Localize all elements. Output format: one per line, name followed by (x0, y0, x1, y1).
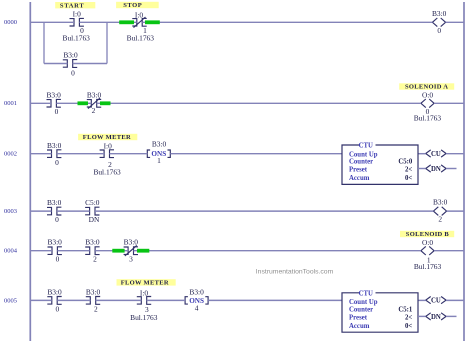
svg-text:DN: DN (431, 314, 441, 321)
svg-text:I:0: I:0 (140, 288, 149, 297)
svg-text:B3:0: B3:0 (124, 238, 139, 247)
svg-text:Bul.1763: Bul.1763 (127, 33, 155, 42)
svg-text:O:0: O:0 (422, 90, 433, 99)
svg-text:0000: 0000 (4, 19, 17, 26)
svg-text:B3:0: B3:0 (63, 51, 78, 60)
svg-text:B3:0: B3:0 (86, 287, 101, 296)
svg-text:O:0: O:0 (422, 238, 433, 247)
svg-text:Counter: Counter (349, 159, 373, 166)
svg-text:START: START (60, 2, 84, 9)
svg-text:1: 1 (157, 156, 161, 165)
svg-text:Preset: Preset (349, 167, 368, 174)
svg-text:FLOW METER: FLOW METER (121, 280, 169, 287)
svg-text:2<: 2< (405, 167, 412, 174)
svg-text:0: 0 (71, 69, 75, 78)
svg-text:B3:0: B3:0 (85, 238, 100, 247)
svg-text:I:0: I:0 (104, 142, 113, 151)
svg-text:Bul.1763: Bul.1763 (63, 33, 91, 42)
svg-text:InstrumentationTools.com: InstrumentationTools.com (256, 269, 334, 276)
svg-text:0002: 0002 (4, 151, 17, 158)
svg-text:Bul.1763: Bul.1763 (93, 167, 121, 176)
svg-text:0: 0 (55, 158, 59, 167)
svg-text:Count Up: Count Up (349, 151, 378, 158)
svg-text:0: 0 (56, 255, 60, 264)
svg-text:C5:1: C5:1 (398, 307, 413, 314)
svg-text:2: 2 (94, 304, 98, 313)
svg-text:C5:0: C5:0 (398, 159, 413, 166)
svg-text:CU: CU (431, 298, 441, 305)
svg-text:Count Up: Count Up (349, 299, 378, 306)
svg-text:Bul.1763: Bul.1763 (414, 262, 442, 271)
svg-text:B3:0: B3:0 (47, 198, 62, 207)
svg-text:Accum: Accum (349, 323, 370, 330)
svg-text:0: 0 (55, 215, 59, 224)
svg-text:CTU: CTU (359, 143, 373, 150)
svg-text:2: 2 (93, 255, 97, 264)
svg-text:0004: 0004 (4, 248, 18, 255)
svg-text:C5:0: C5:0 (85, 198, 100, 207)
svg-text:0: 0 (437, 26, 441, 35)
svg-text:B3:0: B3:0 (47, 287, 62, 296)
svg-text:Bul.1763: Bul.1763 (414, 114, 442, 123)
svg-text:DN: DN (431, 166, 441, 173)
svg-text:CU: CU (431, 151, 441, 158)
svg-text:B3:0: B3:0 (47, 90, 62, 99)
svg-text:FLOW METER: FLOW METER (83, 134, 131, 141)
svg-text:B3:0: B3:0 (47, 141, 62, 150)
svg-text:CTU: CTU (359, 290, 373, 297)
svg-text:2: 2 (438, 215, 442, 224)
svg-text:0: 0 (55, 107, 59, 116)
svg-text:0003: 0003 (4, 208, 17, 215)
svg-text:2<: 2< (405, 314, 412, 321)
svg-text:STOP: STOP (123, 2, 142, 9)
svg-text:Preset: Preset (349, 314, 368, 321)
svg-text:0005: 0005 (4, 297, 17, 304)
svg-text:4: 4 (195, 303, 199, 312)
svg-text:0<: 0< (405, 323, 412, 330)
svg-text:B3:0: B3:0 (433, 198, 448, 207)
svg-text:B3:0: B3:0 (432, 9, 447, 18)
svg-text:Accum: Accum (349, 175, 370, 182)
svg-text:I:0: I:0 (135, 10, 144, 19)
svg-text:I:0: I:0 (73, 9, 82, 18)
svg-text:3: 3 (129, 255, 133, 264)
svg-text:Counter: Counter (349, 307, 373, 314)
svg-text:Bul.1763: Bul.1763 (130, 313, 158, 322)
svg-text:B3:0: B3:0 (189, 287, 204, 296)
svg-text:0: 0 (55, 304, 59, 313)
svg-text:B3:0: B3:0 (48, 238, 63, 247)
svg-text:DN: DN (89, 215, 100, 224)
svg-text:B3:0: B3:0 (152, 140, 167, 149)
svg-text:B3:0: B3:0 (87, 90, 102, 99)
svg-text:2: 2 (92, 106, 96, 115)
svg-text:0001: 0001 (4, 100, 17, 107)
svg-text:0<: 0< (405, 175, 412, 182)
